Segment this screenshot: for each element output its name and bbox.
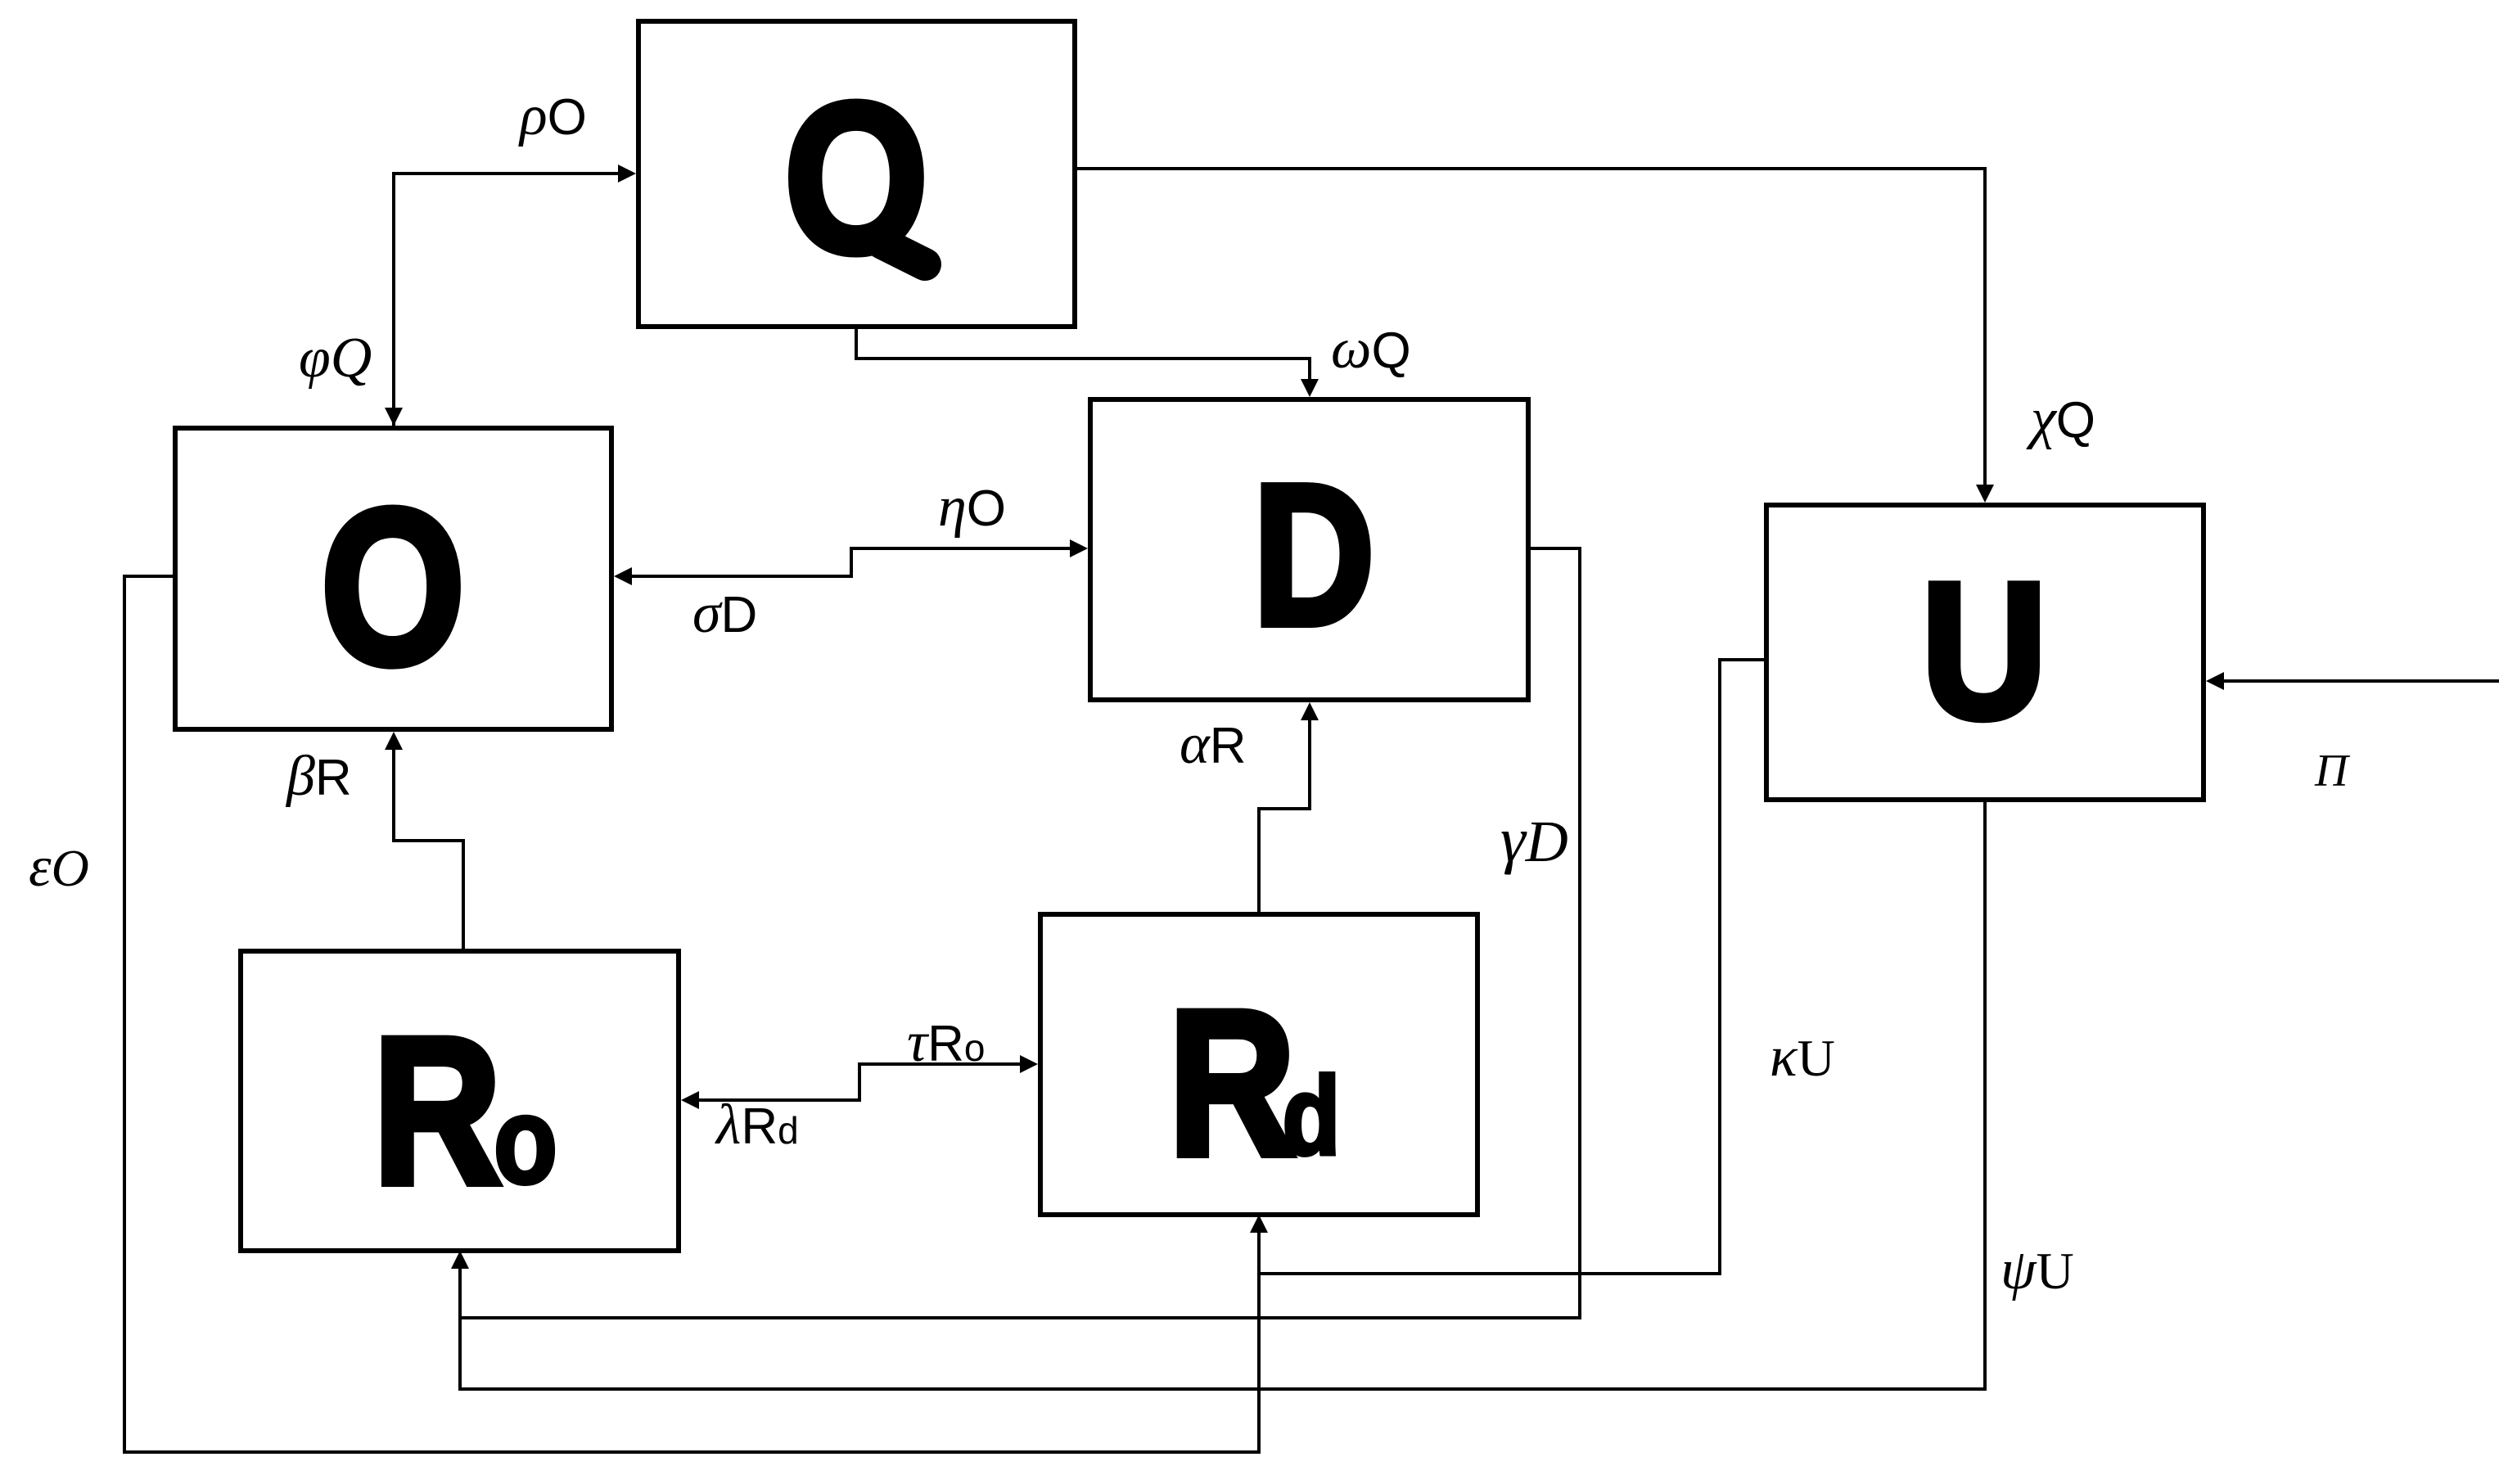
arrow omega-Q into D top <box>1301 379 1319 397</box>
block D <box>1090 399 1528 700</box>
label kappa-U <box>1770 1026 1835 1089</box>
block Rd <box>1040 914 1477 1215</box>
block Q <box>638 21 1075 327</box>
label chi-Q <box>2026 387 2095 450</box>
wire beta-R from Ro top to O bottom <box>394 746 463 951</box>
wire eta-O / sigma-D between O and D <box>628 548 1074 576</box>
label epsilon-O <box>29 836 89 899</box>
label beta-R <box>285 745 352 808</box>
wire Pi into U right <box>2220 679 2499 683</box>
svg-text:U: U <box>1922 544 2047 759</box>
svg-text:βR: βR <box>285 745 352 808</box>
svg-text:Π: Π <box>2314 746 2351 796</box>
label gamma-D <box>1500 804 1568 875</box>
arrow alpha-R into D bottom <box>1301 702 1319 720</box>
block O <box>175 428 611 729</box>
svg-text:o: o <box>494 1072 557 1209</box>
svg-text:φQ: φQ <box>299 327 372 390</box>
arrow psi-U into Ro bottom <box>451 1251 469 1269</box>
arrow epsilon-O into Rd bottom <box>1250 1215 1268 1233</box>
arrow tau-Ro into Rd left <box>1020 1055 1038 1073</box>
svg-text:D: D <box>1253 443 1374 666</box>
label phi-Q <box>299 327 372 390</box>
arrow phi-Q into O top <box>385 408 403 426</box>
arrow eta-O into D left <box>1070 539 1088 557</box>
svg-text:χQ: χQ <box>2026 387 2095 450</box>
label psi-U <box>2001 1238 2074 1301</box>
wire omega-Q from Q bottom to D top <box>856 327 1310 383</box>
svg-text:ψU: ψU <box>2001 1238 2074 1301</box>
arrow beta-R into O bottom <box>385 732 403 750</box>
label tau-Ro <box>907 1011 985 1074</box>
svg-text:σD: σD <box>692 582 757 645</box>
label lambda-Rd <box>715 1094 799 1157</box>
block U <box>1766 505 2204 800</box>
label rho-O <box>518 84 587 147</box>
wire O to Q (rho-O up, phi-Q down) <box>394 174 622 428</box>
arrow lambda-Rd into Ro right <box>681 1091 699 1109</box>
arrow Pi into U right <box>2206 672 2224 690</box>
wire tau-Ro / lambda-Rd between Ro and Rd <box>695 1064 1024 1100</box>
svg-text:αR: αR <box>1180 713 1247 776</box>
svg-text:d: d <box>1283 1053 1341 1178</box>
label eta-O <box>938 476 1006 539</box>
svg-text:εO: εO <box>29 836 89 899</box>
svg-text:ρO: ρO <box>518 84 587 147</box>
label Pi <box>2314 746 2351 796</box>
arrow rho-O into Q left <box>618 165 636 183</box>
wire psi-U from U bottom to Ro bottom <box>460 800 1985 1389</box>
svg-text:ηO: ηO <box>938 476 1006 539</box>
wire epsilon-O from O left around bottom to Rd bottom <box>124 576 1259 1452</box>
label omega-Q <box>1331 318 1411 381</box>
block Ro <box>241 951 679 1251</box>
svg-text:O: O <box>321 462 465 710</box>
svg-text:ωQ: ωQ <box>1331 318 1411 381</box>
arrow sigma-D into O right <box>614 567 632 585</box>
svg-text:R: R <box>373 995 502 1227</box>
svg-text:κU: κU <box>1770 1026 1835 1089</box>
svg-text:R: R <box>1169 968 1296 1198</box>
svg-text:γD: γD <box>1500 804 1568 875</box>
wire kappa-U from U left to Rd bottom join <box>1259 660 1766 1274</box>
wire gamma-D from D right down to Ro bottom join <box>460 548 1580 1318</box>
wire chi-Q from Q right to U top <box>1075 169 1985 489</box>
arrow chi-Q into U top <box>1976 485 1994 503</box>
label alpha-R <box>1180 713 1247 776</box>
label sigma-D <box>692 582 757 645</box>
wire alpha-R from Rd top to D bottom <box>1259 716 1310 914</box>
